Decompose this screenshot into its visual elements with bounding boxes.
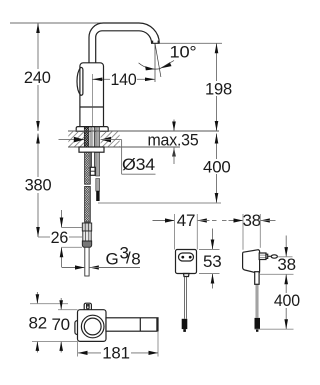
- dim 380: [25, 134, 82, 238]
- svg-text:38: 38: [277, 255, 296, 274]
- faucet body: [80, 63, 104, 127]
- sensor cable upper: [96, 127, 100, 176]
- wall plug unit body: [243, 250, 260, 273]
- sensor window: [77, 67, 83, 95]
- svg-text:G: G: [106, 250, 119, 269]
- hose tail tube: [85, 247, 89, 276]
- deck top line: [68, 130, 219, 132]
- dim Ø34 arrows and leader: [59, 137, 156, 174]
- dim 38 top: [229, 211, 276, 250]
- deck hatch right: [101, 131, 120, 146]
- body joint line: [80, 106, 104, 108]
- dim 26: [50, 210, 82, 268]
- shank hose: [91, 127, 95, 152]
- svg-text:38: 38: [242, 211, 261, 230]
- faucet spout: [89, 23, 159, 63]
- psu cable connector: [182, 319, 188, 329]
- svg-text:max.35: max.35: [148, 131, 199, 150]
- wall plug cable: [255, 284, 257, 318]
- inner tube: [91, 152, 94, 167]
- plug pin: [268, 255, 272, 257]
- dim 82: [29, 292, 68, 353]
- svg-text:400: 400: [203, 158, 231, 177]
- psu neck: [184, 274, 190, 277]
- power supply box: [176, 250, 197, 274]
- dim G3/8: [62, 244, 140, 270]
- dim 198: [205, 43, 232, 131]
- svg-text:181: 181: [102, 343, 130, 362]
- hose fitting hex: [83, 231, 91, 241]
- svg-text:70: 70: [51, 315, 70, 334]
- svg-text:8: 8: [131, 250, 140, 269]
- shared bottom ref line: [32, 340, 78, 342]
- hose fitting collar: [82, 223, 91, 231]
- control unit box: [78, 310, 107, 342]
- svg-text:47: 47: [177, 211, 196, 230]
- control unit bar: [106, 318, 158, 331]
- 10 deg vertical reference: [154, 44, 156, 83]
- shank threaded rod: [84, 127, 89, 152]
- dim 140: [92, 70, 155, 89]
- sensor cable lower: [96, 179, 100, 191]
- strain relief: [255, 272, 259, 285]
- plug prong base: [259, 253, 266, 260]
- dim 70: [51, 298, 77, 353]
- sensor cable connector: [96, 191, 99, 201]
- socket holes: [181, 256, 184, 259]
- control unit ring inner: [84, 318, 101, 335]
- spout outlet rim: [152, 41, 154, 44]
- control unit side tab: [75, 321, 81, 335]
- deck hatch left: [68, 131, 84, 146]
- svg-text:82: 82: [29, 314, 48, 333]
- dim 53: [199, 229, 222, 289]
- dim max.35: [148, 120, 199, 165]
- svg-text:198: 198: [205, 80, 232, 99]
- dim 47: [153, 211, 210, 250]
- svg-text:Ø34: Ø34: [122, 155, 155, 174]
- base plate: [76, 127, 108, 132]
- svg-text:400: 400: [274, 291, 300, 310]
- socket stadium: [179, 253, 194, 261]
- svg-text:10°: 10°: [170, 43, 197, 62]
- dim 240: [24, 23, 52, 131]
- 10 deg leader: [160, 61, 174, 69]
- outlet reference line: [159, 42, 222, 44]
- cable end ext line: [98, 202, 221, 204]
- dim 400 right: [255, 274, 301, 329]
- 10 deg arc: [139, 63, 161, 69]
- 10 deg slanted line: [155, 44, 161, 78]
- deck bottom line: [68, 146, 180, 148]
- wall plug connector: [255, 318, 261, 329]
- svg-text:53: 53: [203, 252, 222, 271]
- hose fitting cap: [82, 241, 91, 247]
- svg-text:240: 240: [24, 68, 51, 87]
- braided hose: [85, 152, 91, 184]
- mounting nut: [79, 147, 104, 152]
- 10 deg arrowheads: [145, 66, 155, 70]
- psu cable: [183, 277, 185, 319]
- control unit plug: [84, 303, 91, 311]
- svg-text:26: 26: [51, 228, 69, 247]
- dim 181: [78, 331, 159, 362]
- dim 38 right: [277, 236, 296, 275]
- control unit ring outer: [81, 315, 104, 338]
- top reference line: [10, 22, 110, 24]
- dim 400 faucet: [203, 134, 231, 204]
- centerline: [91, 74, 93, 147]
- inner tube end cap: [90, 167, 95, 175]
- svg-text:380: 380: [25, 176, 52, 195]
- svg-text:140: 140: [111, 70, 137, 89]
- dashes between 47 and 38: [212, 220, 217, 222]
